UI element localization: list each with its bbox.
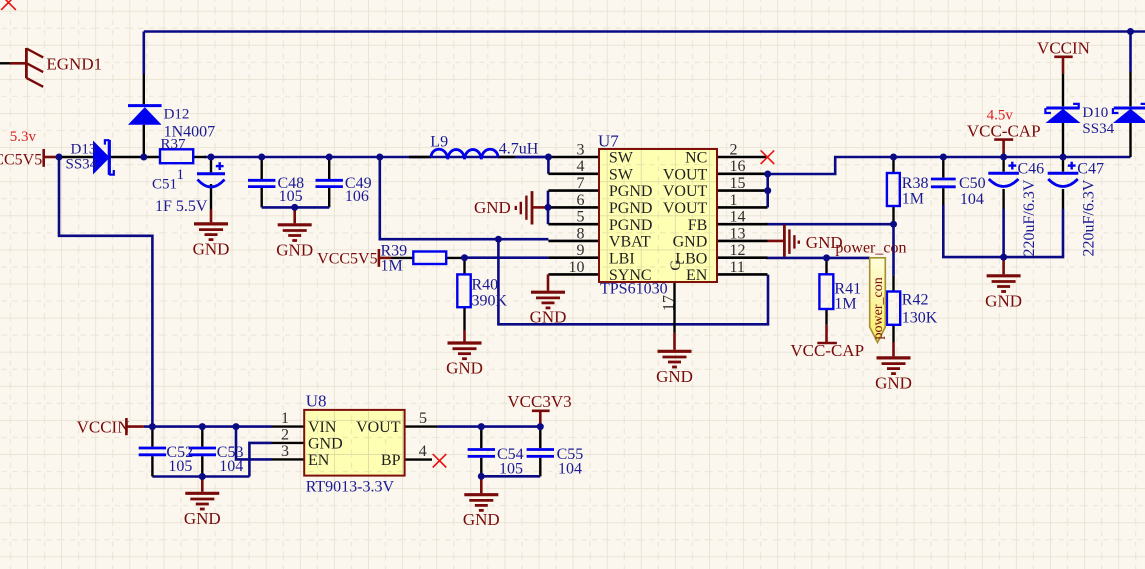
svg-text:VOUT: VOUT [663,200,708,217]
svg-text:D10: D10 [1082,105,1108,121]
svg-text:13: 13 [730,225,746,242]
svg-text:PGND: PGND [609,183,653,200]
svg-text:104: 104 [219,458,243,475]
svg-text:FB: FB [688,217,708,234]
svg-text:9: 9 [577,242,585,259]
svg-text:390K: 390K [472,292,508,309]
svg-text:4: 4 [419,443,427,460]
svg-text:1F 5.5V: 1F 5.5V [155,198,208,215]
svg-text:GND: GND [474,198,511,217]
svg-text:3: 3 [577,141,585,158]
svg-text:1M: 1M [834,295,856,312]
svg-text:U8: U8 [306,391,327,410]
svg-text:4: 4 [577,158,585,175]
svg-text:GND: GND [308,436,343,453]
svg-text:VBAT: VBAT [609,234,651,251]
svg-text:SW: SW [609,150,634,167]
svg-text:17: 17 [661,295,678,311]
svg-text:RT9013-3.3V: RT9013-3.3V [306,479,395,496]
svg-text:5.3v: 5.3v [10,129,37,145]
svg-text:R37: R37 [161,137,187,153]
svg-text:C47: C47 [1077,161,1104,178]
svg-text:VCC3V3: VCC3V3 [507,392,571,411]
svg-text:C46: C46 [1018,161,1045,178]
svg-text:EN: EN [686,267,708,284]
svg-text:G: G [668,260,684,271]
svg-text:VCC-CAP: VCC-CAP [790,341,864,360]
svg-text:8: 8 [577,225,585,242]
svg-text:NC: NC [685,150,707,167]
svg-text:GND: GND [673,234,708,251]
svg-text:U7: U7 [598,132,619,151]
svg-text:5: 5 [419,410,427,427]
svg-text:1: 1 [281,410,289,427]
svg-text:1M: 1M [902,190,924,207]
svg-text:16: 16 [730,158,746,175]
svg-text:VOUT: VOUT [663,183,708,200]
svg-text:220uF/6.3V: 220uF/6.3V [1081,179,1098,256]
svg-text:SW: SW [609,166,634,183]
svg-text:PGND: PGND [609,200,653,217]
svg-text:VCCIN: VCCIN [1037,38,1090,57]
svg-text:R40: R40 [472,276,499,293]
svg-text:5: 5 [577,209,585,226]
svg-text:C51: C51 [152,177,177,193]
svg-text:EGND1: EGND1 [46,54,102,73]
svg-text:VCC5V5: VCC5V5 [0,151,42,168]
svg-text:power_con: power_con [835,240,906,257]
svg-text:R42: R42 [902,292,929,309]
svg-text:SS34: SS34 [66,156,98,172]
svg-text:1: 1 [730,192,738,209]
svg-text:EN: EN [308,452,330,469]
svg-text:6: 6 [577,192,585,209]
svg-text:power_con: power_con [871,277,886,339]
svg-text:15: 15 [730,175,746,192]
svg-text:220uF/6.3V: 220uF/6.3V [1021,179,1038,256]
svg-text:1M: 1M [381,257,403,274]
svg-text:VOUT: VOUT [356,419,401,436]
svg-text:105: 105 [499,461,523,478]
svg-text:BP: BP [381,452,401,469]
svg-text:VIN: VIN [308,419,337,436]
svg-text:12: 12 [730,242,746,259]
svg-text:2: 2 [730,141,738,158]
svg-text:4.7uH: 4.7uH [499,141,539,158]
svg-text:11: 11 [730,259,745,276]
svg-text:VCC-CAP: VCC-CAP [967,121,1041,140]
svg-text:C50: C50 [959,175,986,192]
svg-text:104: 104 [960,191,984,208]
svg-text:D13: D13 [71,141,97,157]
svg-text:VOUT: VOUT [663,166,708,183]
svg-text:105: 105 [168,458,192,475]
svg-text:D12: D12 [164,106,190,122]
svg-text:104: 104 [558,461,582,478]
svg-text:L9: L9 [430,134,448,151]
svg-text:130K: 130K [902,310,938,327]
svg-text:1: 1 [177,167,185,183]
svg-text:106: 106 [345,188,369,205]
svg-text:2: 2 [281,426,289,443]
svg-text:VCCIN: VCCIN [77,418,130,437]
svg-text:PGND: PGND [609,217,653,234]
svg-text:VCC5V5: VCC5V5 [317,250,377,267]
svg-text:10: 10 [569,259,585,276]
svg-text:14: 14 [730,209,746,226]
svg-text:3: 3 [281,443,289,460]
svg-text:SYNC: SYNC [609,267,652,284]
svg-text:LBI: LBI [609,250,635,267]
svg-text:7: 7 [577,175,585,192]
svg-text:SS34: SS34 [1082,121,1114,137]
svg-text:105: 105 [279,188,303,205]
